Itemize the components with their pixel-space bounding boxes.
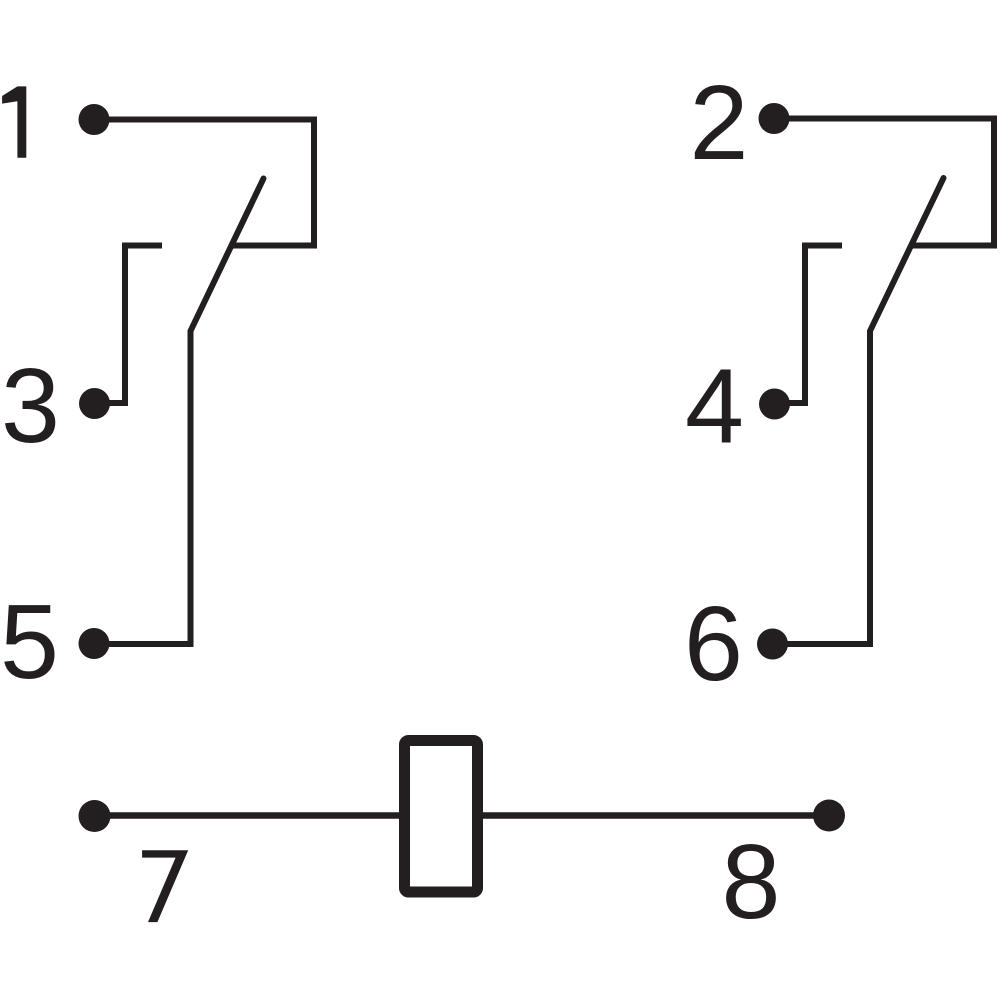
svg-text:3: 3 xyxy=(1,347,60,465)
svg-text:8: 8 xyxy=(722,823,781,941)
switch S2 movable arm (diagonal) with wire down to pin 6 xyxy=(773,178,944,644)
pin 1 terminal dot xyxy=(79,104,110,135)
svg-text:4: 4 xyxy=(685,348,744,466)
pin 5 terminal dot xyxy=(79,628,110,659)
relay coil K1 (rectangle) xyxy=(405,741,478,893)
pin 6 terminal dot xyxy=(757,629,788,660)
svg-text:5: 5 xyxy=(0,583,59,701)
pin 8 terminal dot xyxy=(813,800,845,832)
wire pin 1 to S1 pivot (right, down, left) xyxy=(94,120,314,246)
pin 4 terminal dot xyxy=(759,389,790,420)
wire pin 2 to S2 pivot (right, down, left) xyxy=(774,119,994,246)
wire pin 4 to S2 normally-open contact stub xyxy=(775,246,843,404)
pin 7 label xyxy=(142,850,188,922)
wire pin 7 to coil xyxy=(95,812,400,819)
pin 3 terminal dot xyxy=(79,388,110,419)
pin 2 terminal dot xyxy=(759,103,790,134)
pin 7 terminal dot xyxy=(79,800,111,832)
svg-text:6: 6 xyxy=(684,585,743,703)
switch S1 movable arm (diagonal) with wire down to pin 5 xyxy=(94,179,264,645)
pin 1 label xyxy=(2,86,26,157)
wire pin 3 to S1 normally-open contact stub xyxy=(95,246,163,404)
wire coil to pin 8 xyxy=(483,812,829,819)
svg-text:2: 2 xyxy=(690,64,749,182)
